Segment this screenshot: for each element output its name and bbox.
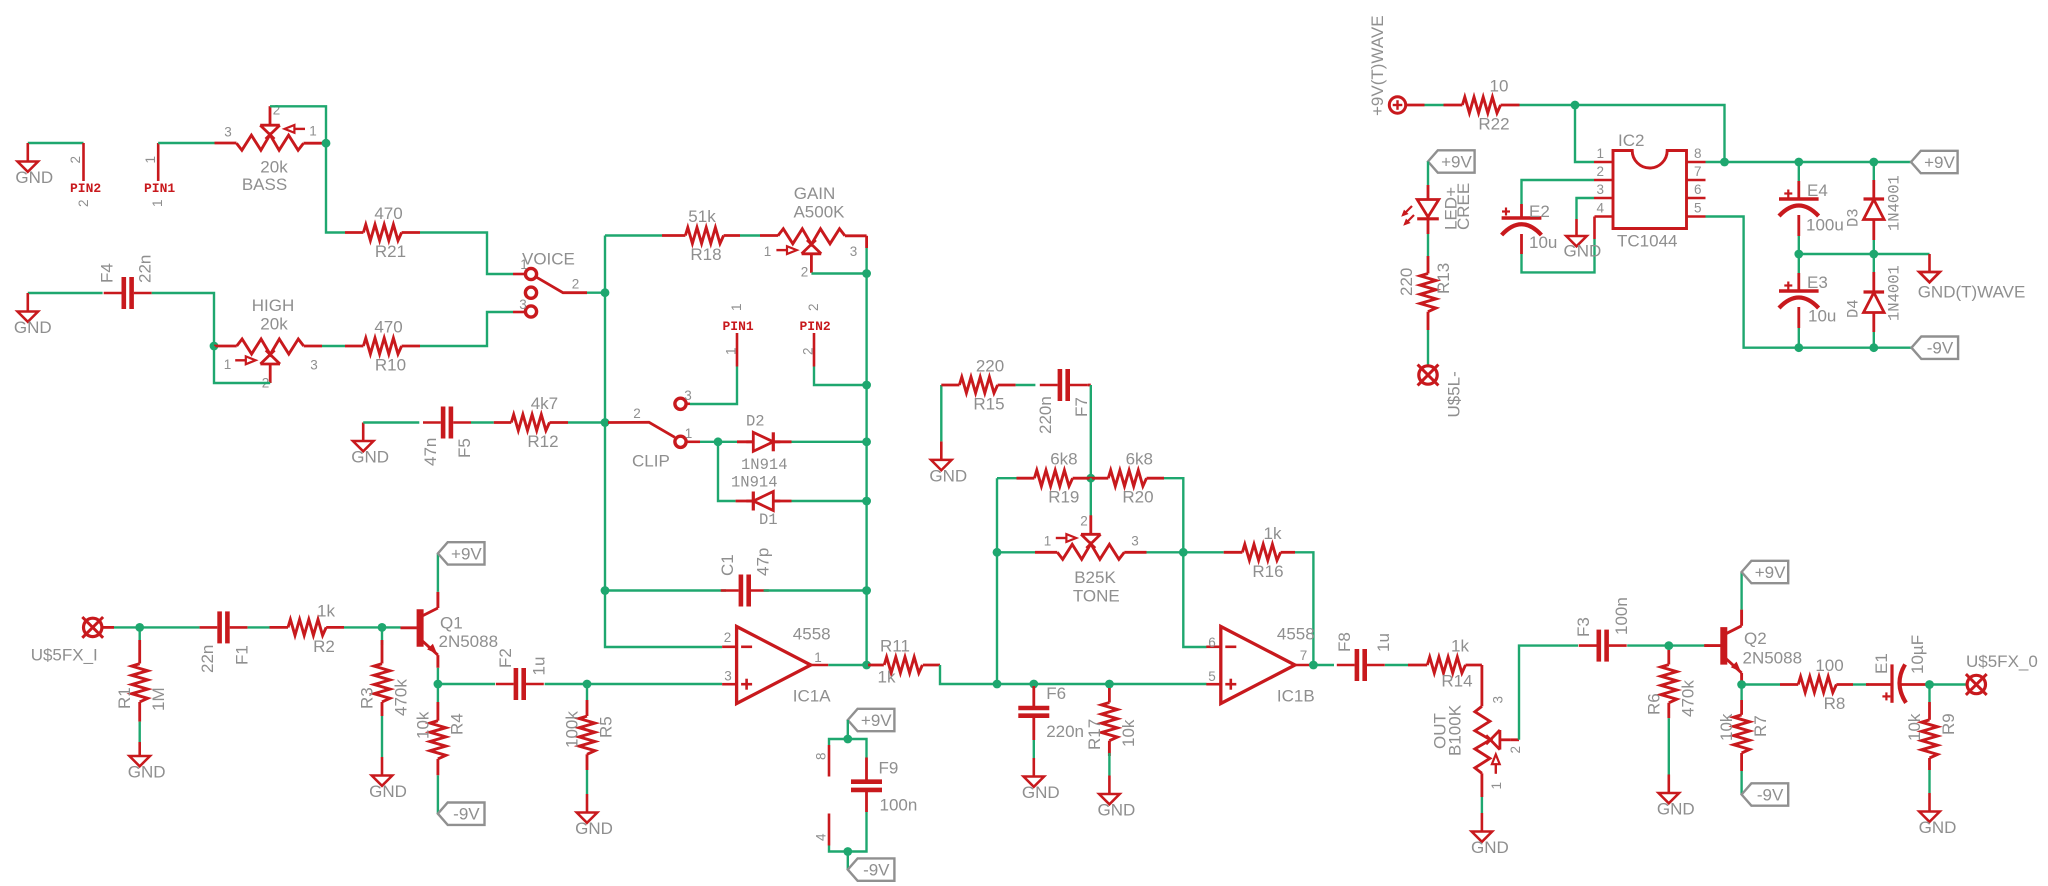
wire E4 bottom lead (1797, 215, 1800, 236)
svg-text:R5: R5 (597, 716, 616, 738)
svg-text:+9V: +9V (1441, 153, 1472, 172)
wire R20 to IC1B minus (1164, 478, 1207, 647)
wire PIN2 to bus (814, 367, 867, 386)
wire OUT wiper to F3 (1519, 646, 1578, 740)
wire R16 left lead (1224, 551, 1243, 554)
svg-text:7: 7 (1694, 164, 1702, 179)
wire OUT wiper lead (1511, 738, 1519, 741)
svg-text:3: 3 (724, 669, 732, 684)
resistor R5 (563, 711, 616, 755)
svg-text:+9V: +9V (451, 544, 482, 563)
IC IC2 TC1044 (1613, 131, 1687, 251)
wire D3 top lead (1872, 180, 1875, 199)
svg-text:220n: 220n (1046, 722, 1084, 741)
junction R9 (1925, 680, 1934, 689)
svg-text:10µF: 10µF (1908, 635, 1927, 674)
svg-text:10u: 10u (1529, 233, 1557, 252)
potentiometer OUT B100K (1431, 696, 1524, 790)
resistor R22 (1462, 77, 1509, 134)
wire E3 bottom (1798, 328, 1800, 348)
wire junction to F1 (140, 626, 200, 628)
wire D4 bottom lead (1872, 313, 1875, 332)
svg-text:20k: 20k (260, 158, 288, 177)
svg-text:10k: 10k (1905, 713, 1924, 741)
svg-text:470: 470 (374, 204, 402, 223)
wire R7 drop (1740, 685, 1742, 701)
wire R11 right lead (923, 664, 940, 667)
wire R5 bottom lead (586, 754, 589, 770)
transistor Q2 2N5088 (1704, 610, 1741, 686)
wire F1 to R2 (248, 626, 270, 628)
capacitor F5 (423, 407, 471, 439)
svg-text:2: 2 (1080, 514, 1088, 529)
svg-text:2: 2 (806, 303, 821, 311)
resistor R14 (1427, 637, 1472, 691)
svg-text:470k: 470k (1678, 680, 1697, 717)
svg-text:GND: GND (369, 782, 407, 801)
svg-text:BASS: BASS (242, 175, 287, 194)
ground (14, 293, 52, 337)
resistor R8 (1798, 656, 1845, 713)
svg-text:F7: F7 (1072, 397, 1091, 417)
wire R20 left lead (1091, 477, 1109, 480)
wire R10 left lead (345, 345, 363, 348)
wire R15 to F7 (1016, 384, 1036, 386)
pin IC1 power pin4 (828, 814, 831, 846)
diode D3 (1864, 199, 1885, 220)
svg-text:5: 5 (1694, 201, 1702, 216)
svg-text:R6: R6 (1644, 693, 1663, 715)
supply +9V flag F9 (848, 709, 895, 731)
resistor R6 (1644, 665, 1697, 717)
wire F6 bottom lead (1032, 718, 1035, 740)
connector PIN1 pin (143, 143, 175, 207)
svg-text:10: 10 (1490, 77, 1509, 96)
svg-text:1: 1 (814, 650, 822, 665)
svg-text:220: 220 (1397, 268, 1416, 296)
svg-text:D1: D1 (759, 511, 778, 529)
svg-text:E2: E2 (1529, 202, 1550, 221)
wire HIGH pin3 lead (304, 345, 322, 348)
svg-text:+9V: +9V (861, 711, 892, 730)
wire Q2 emitter down (1740, 685, 1742, 686)
svg-text:IC1A: IC1A (793, 687, 831, 706)
svg-text:R13: R13 (1434, 263, 1453, 294)
wire D2 right lead (774, 440, 792, 443)
pin IC1 power pin8 (828, 745, 831, 777)
svg-text:1k: 1k (1264, 524, 1282, 543)
op-amp IC1B pin labels (1208, 635, 1307, 684)
svg-text:PIN2: PIN2 (800, 319, 831, 334)
svg-text:220: 220 (976, 357, 1004, 376)
wire R17 top lead (1108, 688, 1111, 703)
connector U$5FX_I pad (82, 617, 103, 638)
ground (1919, 793, 1957, 837)
wire E3 top (1798, 254, 1800, 273)
svg-text:1M: 1M (149, 687, 168, 711)
capacitor F2 (496, 668, 544, 700)
capacitor E4 (1779, 190, 1819, 217)
junction Q1 emitter (434, 680, 443, 689)
wire R12 left lead (494, 421, 512, 424)
supply -9V flag R7 (1742, 783, 1789, 805)
wire R9 to gnd (1928, 770, 1930, 793)
wire OUT pot pin3 lead (1481, 677, 1484, 706)
wire R21 right lead (402, 231, 420, 234)
potentiometer BASS 20k (224, 103, 317, 195)
wire R9 top lead (1928, 702, 1931, 720)
svg-text:2: 2 (76, 199, 91, 207)
wire E3 bottom lead (1797, 307, 1800, 328)
wire R14 left lead (1408, 664, 1427, 667)
wire R4 to -9V (437, 775, 439, 813)
wire R1 bottom lead (138, 702, 141, 722)
ground (1566, 219, 1587, 246)
svg-text:1: 1 (1596, 146, 1604, 161)
wire R11 to lower bus (940, 665, 1207, 684)
wire TONE pin3 lead (1124, 551, 1146, 554)
connector PIN2 header (800, 303, 831, 366)
wire R12 to bus (568, 421, 605, 423)
wire R12 right lead (550, 421, 569, 424)
wire R18 right lead (724, 234, 740, 237)
wire R3 top lead (381, 640, 384, 664)
wire E3 top lead (1797, 273, 1800, 291)
svg-text:F5: F5 (455, 438, 474, 458)
junction BASS pin1 (322, 139, 331, 148)
svg-text:100n: 100n (880, 796, 918, 815)
wire PIN1 to CLIP pin3 (690, 367, 737, 405)
supply +9V flag rail (1911, 151, 1958, 173)
svg-text:1N914: 1N914 (741, 456, 788, 474)
wire pin2 to E2 (1522, 180, 1595, 204)
svg-text:Q1: Q1 (440, 614, 463, 633)
wire R21 to VOICE pin1 (420, 233, 513, 275)
resistor R15 (959, 357, 1004, 414)
svg-text:R14: R14 (1441, 672, 1472, 691)
svg-text:1: 1 (1044, 534, 1052, 549)
svg-text:F3: F3 (1574, 617, 1593, 637)
ground (369, 757, 407, 801)
wire D1 branch (718, 442, 736, 501)
wire VOICE pin3 lead (513, 311, 525, 314)
wire R19 right lead (1073, 477, 1091, 480)
junction GAIN wiper (862, 269, 871, 278)
wire R15 left lead (941, 384, 959, 387)
wire HIGH wiper to pin1 (214, 346, 270, 383)
wire GAIN pin3 lead (845, 234, 867, 237)
svg-text:R1: R1 (115, 687, 134, 709)
svg-text:1u: 1u (1374, 633, 1393, 652)
transistor Q1 labels (439, 614, 499, 652)
resistor R12 (511, 394, 558, 451)
wire R2 left lead (270, 626, 289, 629)
svg-text:2: 2 (724, 630, 732, 645)
ground (575, 794, 613, 838)
wire R2 right lead (326, 626, 344, 629)
junction D1 bus (862, 497, 871, 506)
wire R10 right lead (402, 345, 420, 348)
wire junction to F9 (848, 739, 867, 758)
svg-text:PIN1: PIN1 (144, 181, 175, 196)
ground (1657, 775, 1695, 819)
supply -9V flag rail (1912, 337, 1959, 359)
wire R8 left lead (1780, 683, 1798, 686)
svg-text:+9V(T)WAVE: +9V(T)WAVE (1368, 15, 1387, 116)
svg-text:1: 1 (1489, 782, 1504, 790)
junction F6 (1029, 680, 1038, 689)
wire F2 to R5 junction (545, 683, 605, 685)
svg-text:R3: R3 (358, 687, 377, 709)
wire R16 right lead (1281, 551, 1295, 554)
IC2 pin 1 (1594, 161, 1613, 164)
ground (1098, 776, 1136, 820)
junction D3 D4 (1869, 250, 1878, 259)
wire TONE to R16 (1147, 551, 1224, 553)
svg-text:47p: 47p (754, 548, 773, 576)
wire bus to R18 (605, 234, 662, 236)
svg-text:GND: GND (1657, 800, 1695, 819)
capacitor F4 (104, 277, 152, 309)
wire +9V to F9 junction (847, 720, 849, 739)
svg-text:47n: 47n (421, 438, 440, 466)
wire F9 to bottom junction (848, 812, 867, 852)
wire R17 drop (1108, 684, 1110, 688)
wire R18 left lead (662, 234, 685, 237)
svg-text:1N4001: 1N4001 (1886, 175, 1904, 231)
junction bus C1 row (601, 586, 610, 595)
svg-text:4k7: 4k7 (531, 394, 558, 413)
wire R1 drop (138, 627, 140, 645)
wire R3 drop (381, 627, 383, 645)
svg-text:U$5FX_I: U$5FX_I (31, 646, 98, 665)
svg-text:GND(T)WAVE: GND(T)WAVE (1918, 283, 2026, 302)
svg-text:10u: 10u (1808, 307, 1836, 326)
ground (1471, 813, 1509, 857)
wire R2 to R3 junction (344, 626, 382, 628)
svg-text:220n: 220n (1036, 396, 1055, 434)
wire IC1B out to F8 (1313, 664, 1334, 666)
svg-text:D2: D2 (746, 413, 765, 431)
wire R6 top lead (1667, 650, 1670, 665)
junction D4 bottom (1869, 343, 1878, 352)
diode LED CREE (1401, 183, 1473, 234)
svg-text:2: 2 (273, 103, 281, 118)
wire E4 bottom (1798, 236, 1800, 254)
svg-text:GND: GND (128, 763, 166, 782)
wire R11 left lead (868, 664, 884, 667)
svg-text:3: 3 (1131, 534, 1139, 549)
wire E2 to pin4 loop (1522, 239, 1595, 272)
resistor R10 (363, 318, 406, 375)
IC2 pin 2 (1594, 179, 1613, 182)
transistor Q2 labels (1743, 629, 1803, 668)
supply +9V flag Q1 (438, 542, 485, 564)
svg-text:F8: F8 (1335, 632, 1354, 652)
wire Q2 collector to +9V (1740, 573, 1742, 610)
junction R1 (135, 623, 144, 632)
wire R21 left lead (345, 231, 363, 234)
svg-text:-9V: -9V (1927, 339, 1954, 358)
wire BASS wiper to pin1 (270, 106, 326, 143)
junction R17 (1105, 680, 1114, 689)
wire R3 bottom lead (381, 702, 384, 716)
wire GAIN pin1 lead (760, 234, 778, 237)
capacitor F3 (1579, 630, 1627, 662)
potentiometer GAIN A500K (764, 184, 858, 280)
wire GND to PIN2 jack (28, 142, 84, 144)
junction R6 (1664, 641, 1673, 650)
svg-text:100k: 100k (563, 711, 582, 748)
svg-text:1: 1 (764, 244, 772, 259)
wire R17 to gnd (1108, 753, 1110, 776)
junction D2 bus (862, 437, 871, 446)
wire D4 bottom (1873, 332, 1875, 348)
svg-text:E1: E1 (1872, 653, 1891, 674)
svg-text:2: 2 (68, 156, 83, 164)
capacitor F6 (1018, 684, 1084, 741)
svg-text:+9V: +9V (1924, 153, 1955, 172)
svg-text:R17: R17 (1085, 719, 1104, 750)
ground GND(T)WAVE (1918, 272, 2026, 302)
capacitor F1 (200, 611, 248, 643)
op-amp IC1A pin labels (724, 630, 822, 684)
diode D2 labels (731, 413, 788, 492)
svg-text:3: 3 (1596, 182, 1604, 197)
svg-text:R7: R7 (1751, 715, 1770, 737)
svg-text:4: 4 (1596, 201, 1604, 216)
wire GAIN pin3 down (865, 248, 867, 274)
wire BASS pin3 lead (215, 142, 237, 145)
wire D1 to bus (792, 500, 867, 502)
svg-text:R9: R9 (1939, 713, 1958, 735)
junction E4 E3 (1794, 250, 1803, 259)
svg-text:GND: GND (1098, 801, 1136, 820)
wire input lead (101, 626, 114, 629)
wire F4 gnd to cap (28, 292, 103, 294)
svg-text:GND: GND (1471, 838, 1509, 857)
svg-text:HIGH: HIGH (252, 296, 295, 315)
svg-text:F4: F4 (98, 263, 117, 283)
svg-text:8: 8 (814, 752, 829, 760)
svg-text:GAIN: GAIN (794, 184, 836, 203)
IC2 pin 4 (1595, 215, 1614, 218)
svg-text:6k8: 6k8 (1126, 450, 1153, 469)
supply -9V flag F9 (848, 858, 895, 880)
supply +9V flag LED (1428, 150, 1475, 172)
wire supply to R22 (1425, 104, 1444, 106)
junction bus R12 row (601, 418, 610, 427)
svg-text:F2: F2 (496, 648, 515, 668)
wire F7 right lead (1088, 384, 1091, 387)
wire R8 to E1 (1853, 683, 1869, 685)
svg-text:4: 4 (814, 833, 829, 841)
wire R1 top lead (138, 640, 141, 664)
wire E1 to output pad (1930, 683, 1967, 685)
wire D2 to bus (792, 441, 867, 443)
wire gnd to F5 (363, 421, 419, 423)
switch VOICE (519, 250, 587, 318)
svg-text:CLIP: CLIP (632, 452, 670, 471)
wire F5 to R12 (471, 421, 494, 423)
wire pin3 to gnd (1577, 198, 1595, 219)
svg-text:GND: GND (1564, 242, 1602, 261)
potentiometer TONE B25K (1044, 514, 1139, 606)
svg-text:A500K: A500K (793, 203, 845, 222)
wire BASS junction down to R21 (326, 143, 345, 232)
wire R13 top lead (1427, 256, 1430, 274)
svg-text:10k: 10k (1717, 713, 1736, 741)
svg-text:-9V: -9V (1757, 786, 1784, 805)
resistor 1k (878, 637, 923, 687)
wire input to R1 junction (114, 626, 140, 628)
junction E4 top (1794, 158, 1803, 167)
wire F3 to Q2 base (1627, 644, 1708, 646)
supply +9V(T)WAVE source (1368, 15, 1406, 116)
junction F9 bottom (843, 847, 852, 856)
wire BASS pin1 lead (304, 142, 327, 145)
svg-text:2N5088: 2N5088 (439, 632, 499, 651)
svg-text:3: 3 (684, 388, 692, 403)
wire D4 top (1873, 254, 1875, 272)
resistor R7 (1717, 713, 1770, 753)
junction Q2 emitter (1737, 680, 1746, 689)
wire R20 right lead (1147, 477, 1165, 480)
wire VOICE pole to bus (587, 292, 605, 294)
resistor R9 (1905, 713, 1958, 758)
svg-text:4558: 4558 (1277, 624, 1315, 643)
svg-text:10k: 10k (413, 711, 432, 739)
connector PIN1 header (723, 303, 754, 366)
svg-text:R2: R2 (313, 637, 335, 656)
junction tone bus left (993, 680, 1002, 689)
svg-text:3: 3 (519, 297, 527, 312)
ground (929, 441, 967, 485)
svg-text:GND: GND (1022, 783, 1060, 802)
wire D1 right lead (774, 500, 792, 503)
svg-text:R19: R19 (1048, 488, 1079, 507)
capacitor C1 (721, 575, 769, 607)
svg-text:R20: R20 (1122, 488, 1153, 507)
svg-text:8: 8 (1694, 146, 1702, 161)
wire F9 top lead (865, 758, 868, 781)
capacitor F8 (1337, 649, 1385, 681)
svg-text:2: 2 (801, 265, 809, 280)
svg-text:B25K: B25K (1074, 568, 1116, 587)
ground (15, 143, 53, 187)
svg-text:R22: R22 (1478, 115, 1509, 134)
wire R9 drop (1928, 685, 1930, 703)
wire R5 top lead (586, 700, 589, 716)
svg-text:U$5L-: U$5L- (1445, 371, 1464, 417)
svg-text:D4: D4 (1845, 299, 1863, 318)
svg-text:10k: 10k (1119, 719, 1138, 747)
IC2 pin 6 (1687, 197, 1706, 200)
svg-text:U$5FX_0: U$5FX_0 (1966, 652, 2038, 671)
svg-text:3: 3 (224, 125, 232, 140)
wire mid rail (1799, 253, 1930, 255)
wire R16 to IC1B out (1295, 552, 1313, 665)
wire R15 right lead (998, 384, 1016, 387)
wire R7 top lead (1740, 700, 1743, 715)
diode D4 (1864, 292, 1885, 313)
IC2 pin 7 (1687, 179, 1706, 182)
switch CLIP (608, 388, 692, 471)
wire gnd up to R15 (940, 385, 942, 441)
svg-text:R21: R21 (375, 242, 406, 261)
wire R22 to IC2 (1520, 105, 1725, 162)
connector U$5FX_0 pad (1966, 674, 1987, 695)
